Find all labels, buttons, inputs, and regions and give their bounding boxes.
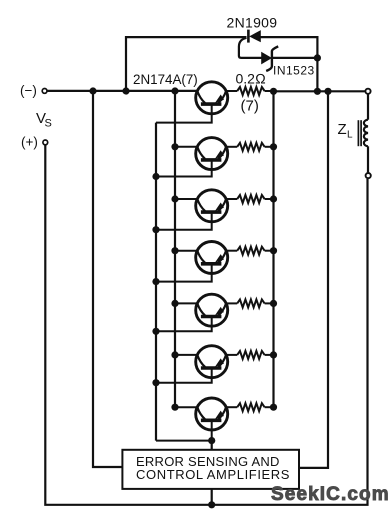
resistor R4 0.2 ohm (237, 247, 264, 255)
wire diode loop left riser (126, 37, 247, 91)
wire error-amp right bus (299, 91, 328, 468)
inductor ZL load coil (358, 120, 368, 147)
zener diode CR2 IN1523 (262, 46, 279, 71)
wire base lead Q6 (156, 368, 212, 383)
svg-text:SeekIC.com: SeekIC.com (271, 484, 390, 505)
transistor Q2 2N174A (196, 138, 228, 170)
wire diode loop top right segment (260, 37, 318, 91)
wire (-) input rail (47, 90, 197, 92)
wire emitter resistor bus (272, 91, 274, 407)
svg-text:(+): (+) (21, 135, 38, 150)
wire emitter-bus to ZL rail (274, 90, 365, 92)
svg-text:2N1909: 2N1909 (227, 15, 278, 31)
wire base bus (155, 123, 157, 441)
terminal ZL top (365, 89, 370, 94)
transistor Q6 2N174A (196, 346, 228, 378)
resistor R1 0.2 ohm (237, 87, 264, 95)
svg-text:2N174A(7): 2N174A(7) (133, 72, 198, 87)
diode CR1 2N1909 (248, 30, 260, 43)
wire base lead Q2 (156, 160, 212, 177)
wire collector lead Q3 (175, 198, 198, 200)
wire zener to loop corner (272, 57, 317, 59)
svg-text:(−): (−) (20, 83, 37, 98)
resistor R6 0.2 ohm (237, 351, 264, 359)
wire ZL top lead (367, 95, 369, 120)
terminal ZL bottom (366, 173, 371, 178)
transistor Q7 2N174A (196, 398, 228, 430)
wire base lead Q7 (156, 420, 212, 440)
wire base lead Q3 (156, 212, 212, 230)
transistor Q3 2N174A (196, 190, 228, 222)
wire resistor R3 to bus (265, 198, 274, 200)
wire collector bus (174, 91, 176, 407)
wire resistor R2 to bus (265, 146, 274, 148)
wire collector lead Q4 (175, 250, 198, 252)
terminal (-) (42, 89, 47, 94)
wire collector lead Q6 (175, 354, 198, 356)
transistor Q1 2N174A (196, 82, 228, 114)
wire emitter lead Q5 (225, 302, 237, 304)
wire emitter lead Q7 (225, 406, 237, 408)
wire base lead Q5 (156, 317, 212, 332)
wire emitter lead Q2 (225, 146, 237, 148)
wire resistor R1 to bus (265, 90, 274, 92)
wire emitter lead Q4 (225, 250, 237, 252)
wire resistor R7 to bus (265, 406, 274, 408)
wire base bus to amplifier box (211, 441, 213, 450)
wire zener branch (239, 38, 262, 58)
wire ZL bottom lead (367, 146, 369, 172)
wire collector lead Q7 (175, 406, 198, 408)
wire collector lead Q1 (175, 90, 198, 92)
resistor R2 0.2 ohm (237, 143, 264, 151)
transistor Q5 2N174A (196, 294, 228, 326)
svg-text:CONTROL AMPLIFIERS: CONTROL AMPLIFIERS (136, 467, 290, 482)
wire error-amp left bus (93, 91, 122, 467)
transistor Q4 2N174A (196, 242, 228, 274)
wire emitter lead Q6 (225, 354, 237, 356)
wire emitter lead Q3 (225, 198, 237, 200)
svg-text:0.2Ω: 0.2Ω (236, 71, 266, 87)
wire resistor R6 to bus (265, 354, 274, 356)
svg-text:IN1523: IN1523 (273, 64, 315, 78)
resistor R5 0.2 ohm (237, 299, 264, 307)
wire collector lead Q5 (175, 302, 198, 304)
terminal (+) (43, 140, 48, 145)
wire collector lead Q2 (175, 146, 198, 148)
svg-text:L: L (347, 130, 353, 141)
wire resistor R5 to bus (265, 302, 274, 304)
wire emitter lead Q1 (225, 90, 237, 92)
svg-text:(7): (7) (241, 98, 259, 115)
error sensing and control amplifiers box U1 (122, 450, 299, 489)
wire base lead Q4 (156, 264, 212, 282)
resistor R3 0.2 ohm (237, 195, 264, 203)
svg-text:Z: Z (338, 121, 347, 138)
svg-text:S: S (45, 118, 52, 130)
wire resistor R4 to bus (265, 250, 274, 252)
wire amplifier box to bottom rail (211, 489, 213, 505)
resistor R7 0.2 ohm (237, 403, 264, 411)
wire base lead Q1 (156, 104, 212, 123)
wire (+) riser and bottom rail (45, 145, 367, 505)
